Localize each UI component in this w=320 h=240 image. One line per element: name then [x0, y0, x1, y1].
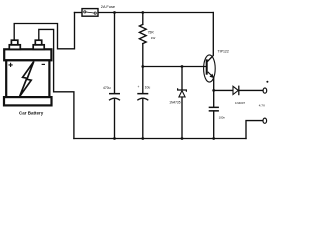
transistor Q1 base bar	[206, 59, 208, 74]
battery right post base	[33, 45, 44, 50]
capacitor C1 470u plates	[109, 93, 120, 100]
junction node on top rail at R1	[141, 11, 144, 14]
svg-text:75R: 75R	[148, 30, 155, 34]
wire: zener bottom lead to rail	[181, 97, 183, 138]
wire: top rail from fuse to collector corner	[98, 12, 213, 14]
output terminal positive	[263, 88, 267, 93]
svg-text:100n: 100n	[219, 116, 226, 120]
svg-text:1N4735: 1N4735	[169, 100, 180, 104]
svg-text:2A Fuse: 2A Fuse	[101, 4, 115, 9]
svg-text:+: +	[138, 85, 140, 89]
wire: emitter down to output node	[213, 78, 215, 91]
battery left post base	[9, 45, 20, 50]
svg-text:1N4007: 1N4007	[235, 101, 246, 105]
battery right post cap	[35, 40, 41, 45]
transistor Q1 emitter segment with arrow	[208, 72, 214, 78]
battery left post cap	[11, 40, 17, 45]
wire: capacitor C2 top lead	[142, 67, 144, 93]
svg-text:TIP122: TIP122	[218, 49, 229, 53]
junction node bottom rail at zener	[181, 137, 184, 140]
junction node bottom rail at C1	[113, 137, 116, 140]
output terminal negative	[263, 118, 267, 123]
svg-text:4.7V: 4.7V	[259, 103, 266, 107]
wire: bottom rail	[74, 138, 246, 140]
battery lid	[4, 49, 51, 60]
wire: output node to diode	[214, 89, 233, 91]
transistor Q1 circle	[204, 55, 216, 82]
wire: base wire horizontal	[143, 66, 206, 68]
battery body	[6, 60, 49, 97]
wire: resistor top lead from rail	[142, 13, 144, 25]
svg-text:470u: 470u	[103, 86, 111, 90]
fuse F1 body	[82, 9, 98, 17]
wire: diode to top terminal	[239, 89, 263, 91]
wire: top rail left segment to fuse	[75, 12, 82, 14]
capacitor C3 100n plates	[209, 107, 219, 112]
wire: resistor bottom lead to base node	[142, 44, 144, 67]
battery plus mark	[9, 63, 13, 67]
battery positive wire from + post up and around to top rail	[14, 13, 74, 49]
junction node on top rail at C1	[113, 11, 116, 14]
svg-text:Car Battery: Car Battery	[19, 111, 44, 116]
wire: capacitor C3 top lead	[213, 90, 215, 106]
junction node base wire at R1/C2	[141, 65, 144, 68]
plus mark near positive terminal	[266, 81, 268, 83]
wire: bottom terminal branch	[246, 121, 263, 139]
battery base tray	[4, 97, 52, 105]
battery lightning bolt	[20, 62, 34, 97]
wire: capacitor C2 bottom lead to rail	[142, 98, 144, 138]
wire: capacitor C3 bottom lead to rail	[213, 111, 215, 139]
junction node base wire at zener	[181, 65, 184, 68]
capacitor C2 10u plates	[137, 93, 148, 100]
wire: capacitor C1 top lead from rail	[114, 13, 116, 93]
wire: capacitor C1 bottom lead to rail	[114, 98, 116, 138]
fuse element	[84, 11, 97, 14]
junction node bottom rail at C2	[141, 137, 144, 140]
zener diode D1	[178, 88, 187, 97]
junction node bottom rail at C3	[212, 137, 215, 140]
wire: zener top lead	[181, 67, 183, 90]
battery negative wire from - post down right side to bottom rail	[39, 29, 74, 138]
resistor R1 zigzag	[139, 24, 146, 43]
diode D2 1N4007	[233, 86, 239, 96]
wire: collector from top rail down	[208, 13, 214, 62]
svg-text:10u: 10u	[145, 85, 151, 89]
battery minus mark	[42, 63, 45, 65]
junction node emitter output	[212, 89, 215, 92]
svg-text:1W: 1W	[151, 36, 156, 40]
